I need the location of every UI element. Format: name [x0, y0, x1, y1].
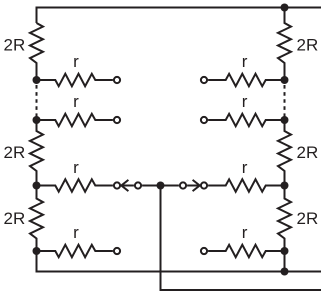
node top-right junction — [281, 4, 289, 12]
terminal row3-right-outer — [201, 182, 207, 188]
node row2-left — [33, 116, 41, 124]
terminal row4-right — [201, 248, 207, 254]
node row3-left — [33, 182, 41, 190]
resistor r row2-right — [208, 114, 284, 126]
terminal row1-right — [201, 77, 207, 83]
terminal row2-right — [201, 117, 207, 123]
node row4-right — [281, 247, 289, 255]
switch arrow right — [187, 180, 200, 191]
node row1-left — [33, 76, 41, 84]
wire dashed right rail — [284, 85, 286, 117]
resistor r row3-right — [208, 179, 284, 191]
wire top rail — [37, 8, 322, 24]
node row1-right — [281, 76, 289, 84]
resistor r row4-left — [37, 245, 113, 257]
resistor r row1-right — [208, 74, 284, 86]
svg-text:r: r — [73, 52, 79, 71]
node center junction — [157, 182, 165, 190]
svg-text:2R: 2R — [297, 209, 319, 228]
resistor 2R top-right — [278, 8, 291, 81]
resistor 2R top-left — [30, 23, 43, 80]
switch arrow left — [121, 180, 134, 191]
svg-text:r: r — [242, 52, 248, 71]
svg-text:2R: 2R — [297, 143, 319, 162]
svg-text:r: r — [242, 158, 248, 177]
wire bottom rail — [37, 251, 322, 272]
svg-text:r: r — [73, 92, 79, 111]
wire center to row3 right-inner — [161, 185, 179, 187]
node row4-left — [33, 247, 41, 255]
resistor 2R bottom-left — [30, 186, 43, 252]
terminal row2-left — [114, 117, 120, 123]
terminal row4-left — [114, 248, 120, 254]
svg-text:2R: 2R — [297, 36, 319, 55]
resistor r row4-right — [208, 245, 284, 257]
terminal row3-right-inner — [180, 182, 186, 188]
wire dashed left rail — [36, 85, 38, 117]
resistor r row1-left — [37, 74, 113, 86]
node row3-right — [281, 182, 289, 190]
resistor 2R bottom-right — [278, 186, 291, 252]
wire row3 left-inner to center — [142, 185, 160, 187]
resistor 2R mid-left — [30, 120, 43, 186]
svg-text:2R: 2R — [4, 209, 26, 228]
terminal row3-left-outer — [114, 182, 120, 188]
resistor 2R mid-right — [278, 120, 291, 186]
resistor r row2-left — [37, 114, 113, 126]
node row2-right — [281, 116, 289, 124]
terminal row3-left-inner — [135, 182, 141, 188]
svg-text:r: r — [242, 92, 248, 111]
node bottom-right junction — [281, 268, 289, 276]
terminal row1-left — [114, 77, 120, 83]
wire center stem to bottom output — [161, 186, 322, 291]
resistor r row3-left — [37, 179, 113, 191]
svg-text:2R: 2R — [4, 143, 26, 162]
svg-text:r: r — [242, 223, 248, 242]
svg-text:2R: 2R — [4, 36, 26, 55]
wire right rail to bottom — [284, 251, 286, 272]
svg-text:r: r — [73, 223, 79, 242]
svg-text:r: r — [73, 158, 79, 177]
